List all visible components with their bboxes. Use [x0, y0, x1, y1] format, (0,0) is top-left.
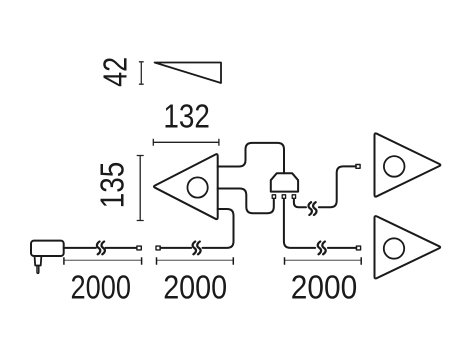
wire C: lamp L1 bottom output, down and left to inline connector: [160, 209, 233, 248]
dimension 135 (height of lamp): [137, 156, 144, 221]
wire A: lamp L1 top output to distributor input: [218, 143, 284, 173]
lamp L3 (bottom right triangle, pointing right): [375, 216, 441, 278]
connector plug square at lamp L2: [356, 165, 360, 169]
connector plug square at PSU wire end: [137, 246, 141, 250]
lamp L2 (top right triangle, pointing right): [375, 133, 441, 196]
lamp L1 lens circle: [187, 177, 207, 197]
connector plug square at left end of wire C: [156, 246, 160, 250]
svg-text:132: 132: [163, 99, 210, 136]
cable-break squiggle on PSU wire: [97, 242, 100, 255]
svg-text:2000: 2000: [163, 270, 227, 307]
power supply PSU body: [31, 241, 64, 256]
lamp L1 (central triangle, pointing left): [154, 154, 218, 219]
PSU mains plug shoulder: [35, 257, 42, 266]
distributor box: [271, 173, 298, 191]
distributor pin 3 (right): [292, 195, 295, 199]
dimension 42 (height of wedge): [139, 62, 144, 84]
wire B: lamp L1 middle output to distributor left pin: [218, 189, 274, 214]
wire D: distributor middle pin down and right to lamp L3: [284, 199, 357, 248]
lamp side-view wedge profile: [155, 63, 221, 84]
svg-text:2000: 2000: [291, 269, 358, 306]
cable-break squiggle on wire E: [308, 202, 311, 215]
lamp L2 lens circle: [384, 156, 405, 177]
PSU output wire: [64, 247, 137, 249]
distributor pin 2 (middle): [282, 195, 285, 199]
wire E: distributor right pin down, right and up to lamp L2: [294, 166, 356, 207]
svg-text:135: 135: [95, 162, 132, 209]
PSU mains plug pin: [37, 266, 39, 274]
connector plug square at lamp L3: [356, 246, 360, 250]
dimension 2000 (PSU cable): [64, 259, 142, 261]
dimension 2000 (lamp L3 cable): [285, 259, 362, 261]
distributor pin 1 (left): [272, 195, 275, 199]
svg-text:2000: 2000: [71, 270, 132, 307]
lamp L3 lens circle: [384, 238, 404, 258]
dimension 2000 (lamp L1 cable): [157, 259, 234, 261]
cable-break squiggle on wire C: [193, 242, 196, 255]
cable-break squiggle on wire D: [318, 242, 321, 255]
svg-text:42: 42: [98, 57, 135, 87]
dimension 132 (width of lamp): [153, 139, 219, 146]
